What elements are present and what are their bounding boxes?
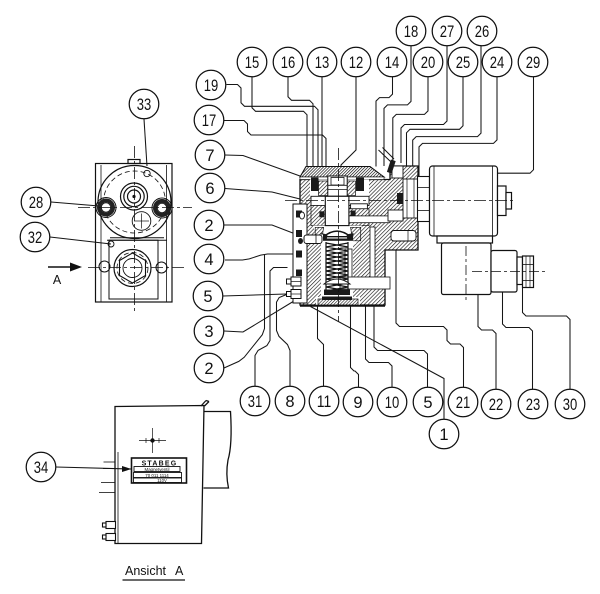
svg-text:9: 9: [353, 394, 362, 412]
svg-text:10: 10: [385, 394, 400, 412]
svg-text:28: 28: [29, 194, 44, 212]
svg-text:29: 29: [526, 54, 541, 72]
svg-text:1: 1: [439, 426, 448, 444]
svg-text:31: 31: [248, 393, 263, 411]
svg-text:25: 25: [456, 54, 471, 72]
svg-text:8: 8: [285, 393, 294, 411]
svg-text:A: A: [53, 273, 62, 287]
svg-text:2: 2: [204, 360, 213, 378]
svg-text:7: 7: [205, 147, 214, 165]
svg-text:33: 33: [137, 96, 152, 114]
svg-text:A: A: [175, 564, 184, 578]
svg-text:19: 19: [204, 77, 219, 95]
svg-text:3: 3: [204, 323, 213, 341]
svg-text:18: 18: [404, 23, 419, 41]
svg-text:Ansicht: Ansicht: [125, 564, 167, 578]
svg-text:30: 30: [563, 396, 578, 414]
svg-text:32: 32: [28, 229, 43, 247]
svg-text:Magnetventil: Magnetventil: [145, 467, 170, 472]
svg-text:5: 5: [203, 288, 212, 306]
svg-text:20: 20: [421, 54, 436, 72]
svg-text:17: 17: [202, 112, 217, 130]
svg-text:4: 4: [204, 251, 213, 269]
svg-text:5: 5: [423, 394, 432, 412]
svg-text:2: 2: [204, 217, 213, 235]
svg-text:6: 6: [205, 180, 214, 198]
svg-text:13: 13: [315, 54, 330, 72]
svg-text:27: 27: [440, 23, 455, 41]
svg-text:26: 26: [475, 23, 490, 41]
svg-text:22: 22: [489, 396, 504, 414]
svg-text:16: 16: [281, 54, 296, 72]
svg-text:15: 15: [245, 54, 260, 72]
svg-text:14: 14: [385, 54, 400, 72]
svg-text:11: 11: [317, 393, 332, 411]
svg-text:24: 24: [490, 54, 505, 72]
svg-text:34: 34: [34, 459, 49, 477]
svg-text:12: 12: [349, 54, 364, 72]
svg-text:110V: 110V: [157, 478, 167, 483]
svg-text:21: 21: [456, 394, 471, 412]
svg-text:23: 23: [526, 396, 541, 414]
